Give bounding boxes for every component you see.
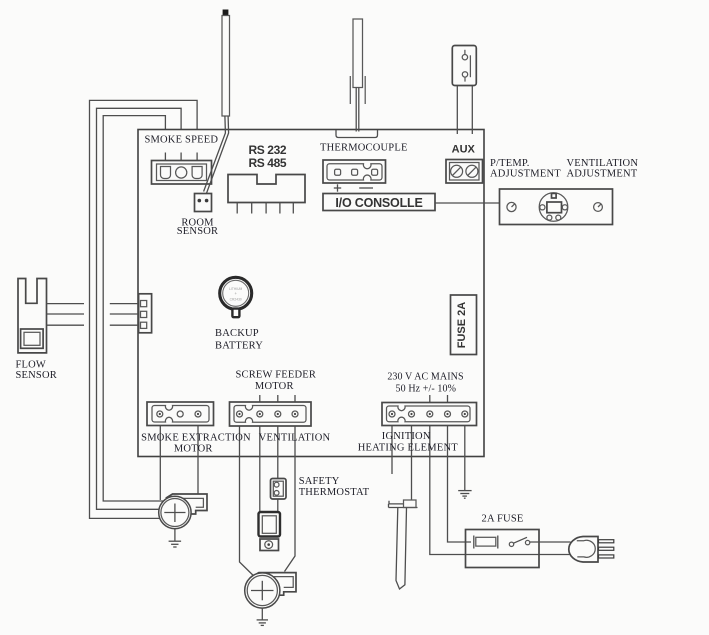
- svg-text:HEATING ELEMENT: HEATING ELEMENT: [358, 443, 458, 454]
- connector AUX terminal: [446, 160, 483, 184]
- svg-text:SENSOR: SENSOR: [177, 226, 218, 237]
- wire mains stubs: [430, 395, 448, 403]
- ignition heating element: [389, 500, 418, 589]
- ventilation motor: [245, 573, 280, 608]
- label RS 232 / RS 485: [249, 143, 287, 170]
- room sensor probe: [222, 10, 230, 117]
- wire smoke extraction motor leads: [160, 414, 198, 505]
- wire screw feeder stubs: [260, 395, 295, 403]
- wire smoke-speed bundle outer (pin3 loop left down to motor): [90, 100, 198, 518]
- wire smoke-speed bundle inner: [103, 116, 165, 501]
- wire smoke-speed pin stubs: [165, 153, 197, 161]
- thermocouple board-edge bracket: [336, 130, 378, 138]
- svg-text:RS 485: RS 485: [249, 156, 287, 170]
- label P/TEMP. ADJUSTMENT: [490, 158, 561, 180]
- label 2A FUSE: [482, 514, 524, 525]
- connector SMOKE SPEED: [152, 161, 212, 185]
- aux switch: [452, 46, 476, 86]
- wire room sensor lead (double): [204, 116, 229, 193]
- wire aux switch leads: [457, 86, 472, 134]
- svg-text:I/O CONSOLLE: I/O CONSOLLE: [335, 196, 422, 210]
- svg-text:SAFETY: SAFETY: [299, 476, 340, 487]
- svg-text:THERMOCOUPLE: THERMOCOUPLE: [320, 143, 408, 154]
- adjustment panel: [500, 189, 613, 225]
- label VENTILATION ADJUSTMENT: [567, 158, 639, 180]
- ground mains: [458, 491, 471, 499]
- svg-text:P/TEMP.: P/TEMP.: [490, 158, 530, 169]
- svg-text:THERMOSTAT: THERMOSTAT: [299, 487, 370, 498]
- fuse element: [474, 536, 498, 549]
- svg-text:SCREW FEEDER: SCREW FEEDER: [235, 370, 316, 381]
- fuse 2A box: [451, 295, 477, 355]
- connector ignition / mains: [382, 403, 477, 426]
- switch in fuse box: [509, 537, 530, 546]
- svg-text:CR2430: CR2430: [230, 297, 242, 301]
- label SMOKE EXTRACTION MOTOR: [141, 433, 251, 455]
- label AUX: [452, 144, 476, 156]
- ventilation motor housing: [254, 573, 297, 596]
- wire thermocouple lead (double): [356, 88, 359, 132]
- label THERMOCOUPLE: [320, 143, 408, 154]
- label VENTILATION: [259, 433, 331, 444]
- thermocouple probe: [350, 19, 365, 104]
- label ROOM SENSOR: [177, 218, 218, 237]
- svg-text:FUSE 2A: FUSE 2A: [456, 302, 468, 349]
- svg-text:MOTOR: MOTOR: [255, 381, 294, 392]
- I/O console box: [323, 194, 435, 211]
- wire I/O console to adjustment panel: [435, 202, 500, 204]
- mains plug: [569, 537, 614, 563]
- svg-text:SENSOR: SENSOR: [16, 370, 57, 381]
- svg-text:IGNITION: IGNITION: [382, 431, 431, 442]
- wire ignition/mains leads: [392, 414, 570, 555]
- connector RS232/RS485: [228, 175, 305, 214]
- svg-text:VENTILATION: VENTILATION: [259, 433, 331, 444]
- label BACKUP BATTERY: [215, 328, 263, 352]
- smoke extraction motor: [159, 496, 191, 528]
- svg-text:AUX: AUX: [452, 144, 476, 156]
- label SMOKE SPEED: [144, 135, 218, 146]
- svg-text:VENTILATION: VENTILATION: [567, 158, 639, 169]
- backup battery: [220, 277, 252, 317]
- svg-text:SMOKE SPEED: SMOKE SPEED: [144, 135, 218, 146]
- svg-text:BATTERY: BATTERY: [215, 341, 263, 352]
- svg-text:BACKUP: BACKUP: [215, 328, 259, 339]
- connector thermocouple terminal: [323, 160, 386, 183]
- label 230 V AC MAINS 50Hz: [387, 372, 463, 395]
- svg-text:SMOKE EXTRACTION: SMOKE EXTRACTION: [141, 433, 251, 444]
- thermocouple polarity marks + -: [334, 184, 373, 191]
- wire ventilation motor leads: [240, 414, 296, 576]
- 2A fuse box: [466, 530, 540, 568]
- svg-text:RS 232: RS 232: [249, 143, 287, 157]
- flow sensor: [18, 279, 47, 353]
- smoke extraction motor housing: [167, 494, 208, 514]
- label SCREW FEEDER MOTOR: [235, 370, 316, 393]
- ground ventilation motor: [257, 608, 268, 625]
- svg-text:2A FUSE: 2A FUSE: [482, 514, 524, 525]
- connector ventilation: [230, 402, 312, 426]
- screw feeder motor assembly: [259, 512, 281, 551]
- label SAFETY THERMOSTAT: [299, 476, 370, 498]
- connector smoke extraction motor: [147, 402, 214, 426]
- svg-text:ADJUSTMENT: ADJUSTMENT: [567, 169, 638, 180]
- label FLOW SENSOR: [16, 360, 57, 381]
- safety thermostat: [271, 479, 287, 500]
- wire fuse to plug: [530, 541, 571, 543]
- svg-text:50 Hz +/- 10%: 50 Hz +/- 10%: [396, 384, 457, 395]
- svg-text:230 V AC MAINS: 230 V AC MAINS: [387, 372, 463, 383]
- ground smoke extraction motor: [169, 529, 182, 547]
- svg-text:ADJUSTMENT: ADJUSTMENT: [490, 169, 561, 180]
- main control board: [138, 130, 484, 457]
- svg-text:MOTOR: MOTOR: [174, 444, 213, 455]
- wire smoke-speed bundle middle: [97, 108, 182, 509]
- wire flow sensor leads: [47, 304, 139, 326]
- label IGNITION HEATING ELEMENT: [358, 431, 458, 454]
- connector ROOM SENSOR: [195, 194, 212, 212]
- connector flow sensor (board edge): [139, 294, 152, 333]
